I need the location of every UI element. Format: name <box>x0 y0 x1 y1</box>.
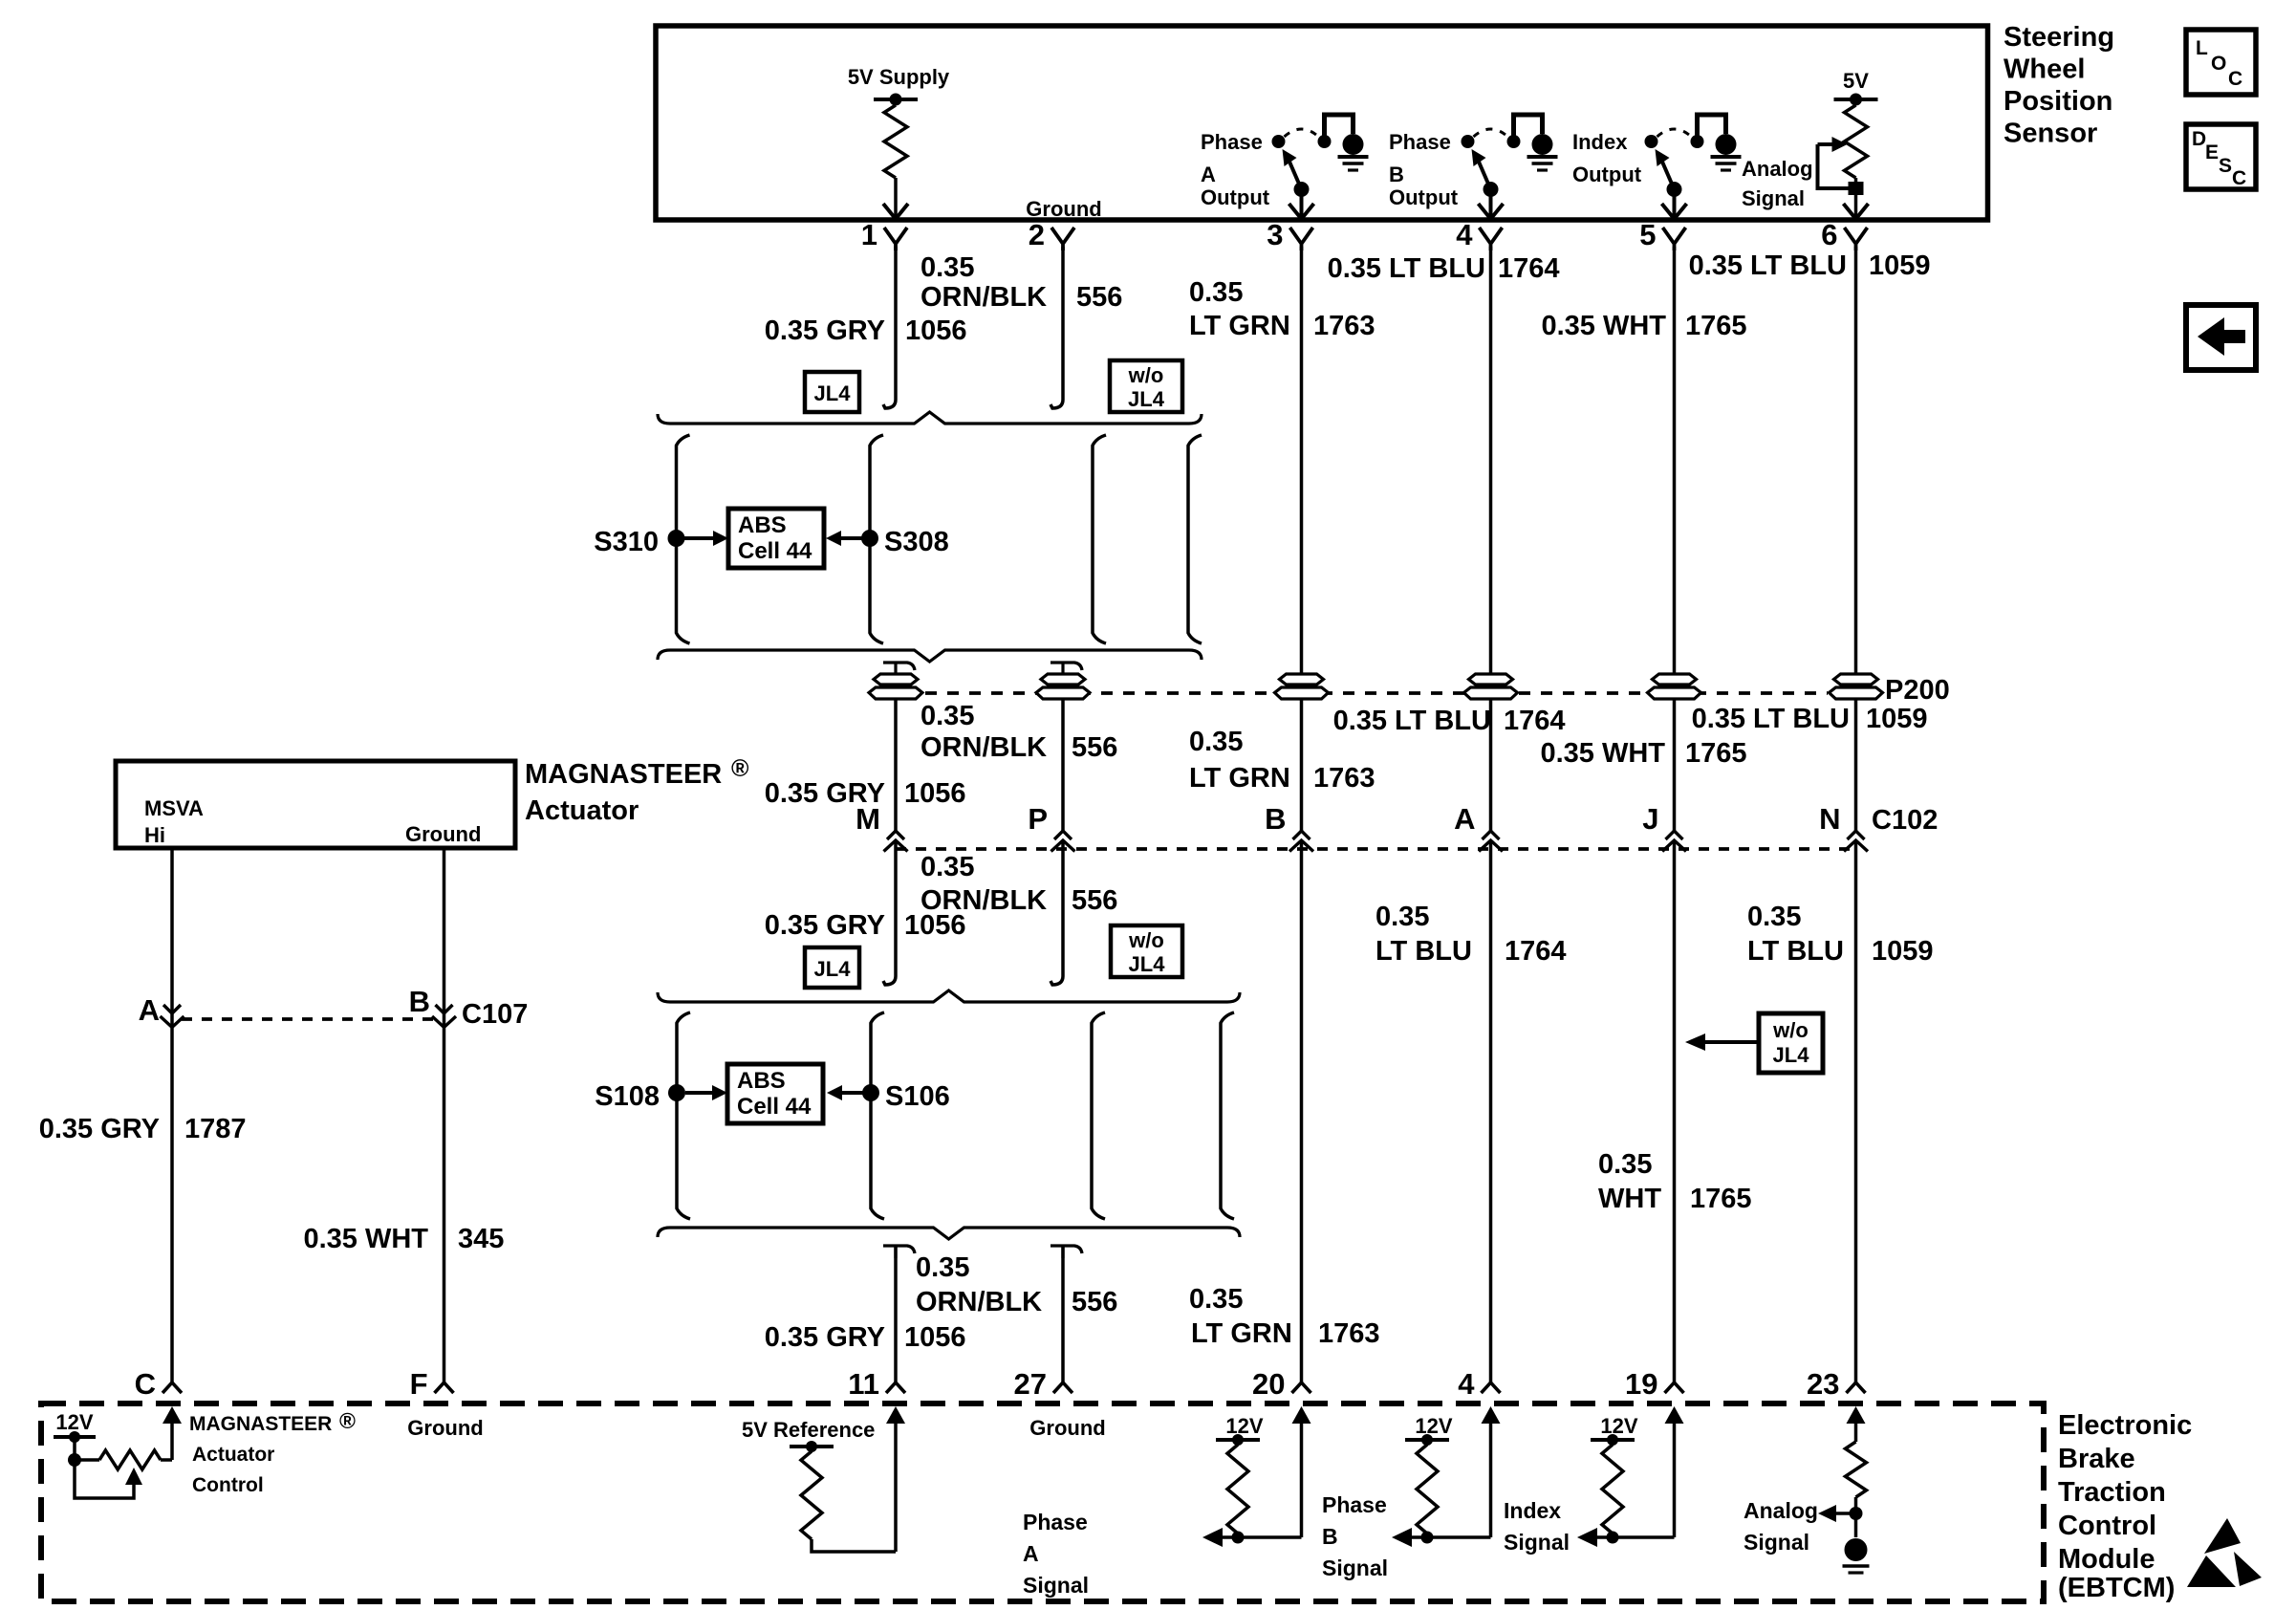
wire 345 WHT from MSVA Ground to EBTCM pin F <box>443 850 446 1382</box>
resistor: 5V supply <box>894 99 898 105</box>
svg-text:Wheel: Wheel <box>2004 54 2085 85</box>
svg-text:Brake: Brake <box>2058 1444 2135 1474</box>
harness wire <box>1092 1012 1105 1219</box>
wire with arrow to pin 1 <box>894 178 898 218</box>
output wire with arrow <box>1489 189 1493 218</box>
svg-text:3: 3 <box>1267 218 1283 251</box>
svg-text:1765: 1765 <box>1685 738 1747 769</box>
svg-text:A: A <box>139 993 160 1027</box>
wire 1764 LT BLU to EBTCM pin 4 <box>1489 840 1493 1382</box>
connector C102 terminal B <box>1293 831 1310 839</box>
svg-text:LT GRN: LT GRN <box>1191 1318 1292 1349</box>
svg-text:1765: 1765 <box>1690 1184 1752 1214</box>
svg-text:MSVA: MSVA <box>144 796 204 820</box>
svg-text:23: 23 <box>1807 1367 1839 1401</box>
svg-text:0.35 LT BLU: 0.35 LT BLU <box>1689 250 1847 281</box>
wire 556 ORN/BLK to EBTCM pin 27 <box>1061 1246 1065 1382</box>
harness wire (S106) <box>871 1012 884 1219</box>
5V supply node <box>1834 98 1878 101</box>
svg-text:E: E <box>2205 141 2219 163</box>
potentiometer resistor: Analog Signal <box>1854 99 1858 105</box>
svg-text:Cell 44: Cell 44 <box>738 538 812 564</box>
splice S108 <box>668 1084 685 1101</box>
svg-text:0.35 GRY: 0.35 GRY <box>765 315 885 346</box>
svg-text:1763: 1763 <box>1318 1318 1380 1349</box>
svg-text:JL4: JL4 <box>1773 1043 1810 1067</box>
signal wire with arrow <box>1592 1535 1675 1539</box>
connector C102 terminal M <box>887 831 904 839</box>
svg-text:Output: Output <box>1389 185 1459 209</box>
svg-text:Analog: Analog <box>1742 157 1813 181</box>
output wire with arrow <box>1673 189 1677 218</box>
svg-text:0.35: 0.35 <box>1189 277 1243 308</box>
svg-text:Cell 44: Cell 44 <box>737 1094 812 1120</box>
svg-text:20: 20 <box>1252 1367 1285 1401</box>
svg-text:1764: 1764 <box>1504 706 1566 736</box>
connector C107 dashed line <box>182 1017 435 1021</box>
svg-text:®: ® <box>339 1408 356 1433</box>
svg-text:0.35: 0.35 <box>1598 1149 1652 1180</box>
signal wire with arrow <box>1831 1512 1856 1515</box>
potentiometer wiper arrow <box>75 1460 134 1498</box>
wire 1787 GRY from MSVA Hi to EBTCM pin C <box>170 850 174 1382</box>
svg-text:0.35: 0.35 <box>916 1252 969 1283</box>
svg-text:Module: Module <box>2058 1544 2155 1575</box>
splice S106 <box>862 1084 879 1101</box>
svg-text:C: C <box>135 1367 156 1401</box>
svg-text:S: S <box>2219 155 2232 177</box>
svg-text:J: J <box>1642 802 1658 836</box>
connector C102 terminal A <box>1483 831 1500 839</box>
splice block ABS Cell 44 <box>727 1064 823 1123</box>
wire 1764 LT BLU from pin 4 <box>1489 247 1493 831</box>
svg-text:1056: 1056 <box>904 778 966 809</box>
junction <box>73 1437 76 1460</box>
wire <box>812 1539 896 1552</box>
svg-text:Output: Output <box>1572 163 1642 186</box>
resistor: Analog Signal load <box>1846 1442 1867 1497</box>
svg-text:12V: 12V <box>55 1410 93 1434</box>
svg-text:P: P <box>1028 802 1048 836</box>
svg-text:12V: 12V <box>1225 1414 1263 1438</box>
option box w/o JL4 with arrow to WHT wire <box>1759 1013 1823 1073</box>
svg-text:2: 2 <box>1029 218 1045 251</box>
harness wire <box>1221 1012 1234 1219</box>
svg-text:WHT: WHT <box>1598 1184 1661 1214</box>
connector P200 dashed line <box>925 691 1828 695</box>
back arrow box <box>2186 305 2256 370</box>
svg-text:4: 4 <box>1456 218 1473 251</box>
junction <box>1421 1532 1434 1544</box>
svg-text:Control: Control <box>192 1474 264 1496</box>
connector C102 dashed line <box>896 847 1856 851</box>
svg-text:L: L <box>2196 37 2208 59</box>
switch contact node <box>1645 135 1658 148</box>
svg-text:0.35: 0.35 <box>921 852 974 882</box>
wire 1056 GRY <box>894 699 898 831</box>
junction <box>1607 1532 1619 1544</box>
harness brace top (section 1) <box>658 412 1202 424</box>
svg-text:1059: 1059 <box>1869 250 1931 281</box>
svg-text:0.35: 0.35 <box>1747 902 1801 932</box>
arrow into pin 11 <box>886 1406 905 1424</box>
connector P200 terminal (wire A) <box>1464 674 1518 699</box>
svg-text:1: 1 <box>861 218 877 251</box>
DESC box <box>2186 124 2256 189</box>
component box MAGNASTEER Actuator (MSVA) <box>116 761 515 848</box>
svg-text:0.35: 0.35 <box>921 701 974 731</box>
ground <box>1532 134 1553 155</box>
wire 1763 LT GRN to EBTCM pin 20 <box>1300 840 1304 1382</box>
svg-text:1764: 1764 <box>1498 253 1560 284</box>
svg-text:N: N <box>1819 802 1840 836</box>
svg-text:A: A <box>1454 802 1475 836</box>
wire to ground <box>1514 115 1543 140</box>
arrow into pin C <box>162 1406 182 1424</box>
option box w/o JL4 <box>1111 925 1182 977</box>
wire 1059 LT BLU from pin 6 <box>1854 247 1858 831</box>
svg-text:Sensor: Sensor <box>2004 119 2097 149</box>
svg-text:ORN/BLK: ORN/BLK <box>921 282 1047 313</box>
svg-text:27: 27 <box>1014 1367 1047 1401</box>
svg-text:Signal: Signal <box>1023 1573 1089 1598</box>
connector C102 terminal J <box>1666 831 1683 839</box>
svg-text:ABS: ABS <box>737 1068 786 1094</box>
switch contact to ground <box>1691 135 1704 148</box>
switch arm <box>1662 161 1675 189</box>
svg-text:MAGNASTEER: MAGNASTEER <box>525 759 722 790</box>
svg-text:1056: 1056 <box>905 315 967 346</box>
LOC box <box>2186 30 2256 95</box>
svg-text:0.35 LT BLU: 0.35 LT BLU <box>1692 704 1850 734</box>
svg-text:Signal: Signal <box>1742 186 1805 210</box>
harness wire <box>1188 435 1202 643</box>
svg-text:JL4: JL4 <box>1128 387 1165 411</box>
svg-text:1056: 1056 <box>904 910 966 941</box>
harness brace bottom (section 2) <box>658 1228 1240 1239</box>
resistor (pull-up) <box>1611 1440 1614 1445</box>
wire 1059 LT BLU to EBTCM pin 23 <box>1854 840 1858 1382</box>
svg-text:1056: 1056 <box>904 1322 966 1353</box>
svg-text:1763: 1763 <box>1313 311 1375 341</box>
svg-text:Phase: Phase <box>1023 1510 1088 1534</box>
svg-text:w/o: w/o <box>1772 1018 1809 1042</box>
arrow into pin 23 <box>1847 1406 1866 1424</box>
svg-text:®: ® <box>731 755 749 782</box>
wire stub 1056 GRY <box>883 1246 915 1258</box>
svg-text:O: O <box>2211 53 2226 75</box>
signal wire with arrow <box>1407 1535 1491 1539</box>
connector P200 terminal (wire N) <box>1830 674 1883 699</box>
splice S308 <box>861 530 878 547</box>
svg-text:M: M <box>856 802 880 836</box>
wire 556 ORN/BLK <box>1061 699 1065 831</box>
svg-text:LT GRN: LT GRN <box>1189 311 1290 341</box>
resistor: Index Signal pull-up (12V) <box>1665 1406 1684 1424</box>
svg-text:0.35: 0.35 <box>1189 727 1243 757</box>
wire 1056 GRY to EBTCM pin 11 <box>894 1246 898 1382</box>
resistor: 5V Reference <box>810 1447 813 1451</box>
svg-text:S108: S108 <box>595 1081 660 1112</box>
svg-text:P200: P200 <box>1885 675 1950 706</box>
option box JL4 <box>805 372 859 412</box>
wire 1056 GRY from pin 1 <box>883 247 896 408</box>
svg-text:Signal: Signal <box>1504 1530 1570 1555</box>
svg-text:556: 556 <box>1072 1287 1117 1317</box>
connector C107 terminal B <box>436 1005 453 1013</box>
svg-text:Signal: Signal <box>1744 1530 1809 1555</box>
svg-text:MAGNASTEER: MAGNASTEER <box>189 1413 332 1435</box>
svg-text:ORN/BLK: ORN/BLK <box>921 732 1047 763</box>
ground symbol <box>1854 1513 1858 1537</box>
svg-text:LT GRN: LT GRN <box>1189 763 1290 794</box>
svg-text:5V Reference: 5V Reference <box>742 1418 875 1442</box>
signal wire with arrow <box>1218 1535 1302 1539</box>
svg-text:345: 345 <box>458 1224 504 1254</box>
svg-text:5: 5 <box>1639 218 1656 251</box>
connector P200 terminal (wire B) <box>1275 674 1329 699</box>
svg-text:5V: 5V <box>1843 69 1869 93</box>
svg-text:12V: 12V <box>1415 1414 1452 1438</box>
svg-text:1765: 1765 <box>1685 311 1747 341</box>
wire to ground <box>1698 115 1726 140</box>
svg-text:C: C <box>2232 167 2246 189</box>
svg-text:5V Supply: 5V Supply <box>848 65 950 89</box>
svg-text:556: 556 <box>1072 885 1117 916</box>
svg-text:0.35 WHT: 0.35 WHT <box>303 1224 428 1254</box>
wire 556 ORN/BLK from pin 2 <box>1051 247 1063 408</box>
svg-text:Steering: Steering <box>2004 22 2114 53</box>
svg-text:w/o: w/o <box>1128 363 1164 387</box>
svg-text:Control: Control <box>2058 1511 2156 1541</box>
svg-text:0.35 WHT: 0.35 WHT <box>1540 738 1665 769</box>
harness wire (S310) <box>677 435 690 643</box>
svg-text:Actuator: Actuator <box>525 795 639 826</box>
wire with arrow to pin 6 <box>1854 178 1858 218</box>
junction <box>1850 1507 1863 1520</box>
svg-text:0.35: 0.35 <box>1375 902 1429 932</box>
switch travel arc (dashed) <box>1474 129 1508 137</box>
potentiometer resistor <box>75 1458 99 1462</box>
harness brace bottom (section 1) <box>658 650 1202 662</box>
svg-text:Ground: Ground <box>1029 1416 1105 1440</box>
svg-text:1763: 1763 <box>1313 763 1375 794</box>
svg-text:0.35 GRY: 0.35 GRY <box>39 1114 160 1144</box>
switch contact to ground <box>1507 135 1521 148</box>
svg-text:w/o: w/o <box>1128 928 1164 952</box>
svg-text:S310: S310 <box>594 527 659 557</box>
wire stub to P200 (GRY) <box>883 663 915 675</box>
svg-text:Ground: Ground <box>405 822 481 846</box>
svg-text:0.35: 0.35 <box>921 252 974 283</box>
wire 556 ORN/BLK to harness <box>1051 840 1063 985</box>
svg-text:Hi: Hi <box>144 823 165 847</box>
svg-text:S106: S106 <box>885 1081 950 1112</box>
output wire with arrow <box>1300 189 1304 218</box>
svg-text:1059: 1059 <box>1872 936 1934 967</box>
svg-text:Traction: Traction <box>2058 1477 2166 1508</box>
svg-text:11: 11 <box>848 1367 879 1401</box>
svg-text:C102: C102 <box>1872 805 1938 836</box>
splice S310 <box>668 530 685 547</box>
wire stub to P200 (ORN/BLK) <box>1051 663 1082 675</box>
svg-text:ORN/BLK: ORN/BLK <box>916 1287 1042 1317</box>
svg-text:4: 4 <box>1458 1367 1475 1401</box>
svg-text:Actuator: Actuator <box>192 1444 274 1466</box>
connector P200 terminal (wire J) <box>1648 674 1701 699</box>
harness wire (S308) <box>870 435 883 643</box>
svg-text:1787: 1787 <box>184 1114 247 1144</box>
svg-text:0.35 LT BLU: 0.35 LT BLU <box>1328 253 1485 284</box>
svg-text:B: B <box>1322 1524 1338 1549</box>
svg-text:Analog: Analog <box>1744 1498 1818 1523</box>
5V reference supply node <box>790 1445 834 1448</box>
wire to ground <box>1325 115 1354 140</box>
svg-text:D: D <box>2192 128 2206 150</box>
svg-text:A: A <box>1201 163 1216 186</box>
svg-text:Index: Index <box>1572 130 1628 154</box>
switch travel arc (dashed) <box>1657 129 1692 137</box>
svg-text:Output: Output <box>1201 185 1270 209</box>
resistor (pull-up) <box>1425 1440 1429 1445</box>
resistor: Phase A Signal pull-up (12V) <box>1292 1406 1311 1424</box>
svg-text:B: B <box>1265 802 1286 836</box>
wire 1056 GRY to harness <box>883 840 896 985</box>
switch travel arc (dashed) <box>1285 129 1319 137</box>
option box w/o JL4 <box>1110 360 1182 412</box>
svg-text:Phase: Phase <box>1201 130 1263 154</box>
svg-text:0.35 LT BLU: 0.35 LT BLU <box>1333 706 1491 736</box>
harness wire <box>1093 435 1106 643</box>
svg-text:0.35 GRY: 0.35 GRY <box>765 910 885 941</box>
option box JL4 <box>805 947 859 988</box>
svg-text:556: 556 <box>1072 732 1117 763</box>
svg-text:LT BLU: LT BLU <box>1375 936 1472 967</box>
5V supply node <box>874 98 918 101</box>
wire 1763 LT GRN from pin 3 <box>1300 247 1304 831</box>
ground <box>1343 134 1364 155</box>
wire 1765 WHT to EBTCM pin 19 <box>1673 840 1677 1382</box>
svg-text:JL4: JL4 <box>814 381 852 405</box>
connector C102 terminal P <box>1054 831 1072 839</box>
switch arm <box>1479 161 1491 189</box>
svg-text:0.35 GRY: 0.35 GRY <box>765 1322 885 1353</box>
ESD sensitive device symbol <box>2204 1518 2241 1554</box>
harness brace top (section 2) <box>658 990 1240 1002</box>
harness wire (S108) <box>677 1012 690 1219</box>
connector P200 terminal (wire M) <box>869 674 922 699</box>
svg-text:B: B <box>409 985 430 1018</box>
svg-text:Phase: Phase <box>1322 1492 1387 1517</box>
svg-text:ABS: ABS <box>738 512 787 538</box>
svg-text:S308: S308 <box>884 527 949 557</box>
connector C107 terminal A <box>163 1005 181 1013</box>
connector C102 terminal N <box>1848 831 1865 839</box>
svg-text:Electronic: Electronic <box>2058 1410 2192 1441</box>
wire stub 556 ORN/BLK <box>1051 1246 1082 1258</box>
switch contact node <box>1272 135 1286 148</box>
svg-text:1764: 1764 <box>1505 936 1567 967</box>
resistor (pull-up) <box>1236 1440 1240 1445</box>
svg-text:LT BLU: LT BLU <box>1747 936 1844 967</box>
svg-text:0.35: 0.35 <box>1189 1284 1243 1315</box>
svg-text:C: C <box>2228 68 2242 90</box>
junction <box>1232 1532 1245 1544</box>
switch contact to ground <box>1318 135 1332 148</box>
svg-text:JL4: JL4 <box>1129 952 1166 976</box>
svg-text:6: 6 <box>1821 218 1837 251</box>
switch contact node <box>1462 135 1475 148</box>
svg-text:19: 19 <box>1625 1367 1657 1401</box>
potentiometer wiper arrow <box>1818 144 1851 188</box>
module box EBTCM (dashed) <box>41 1403 2044 1601</box>
svg-text:556: 556 <box>1076 282 1122 313</box>
svg-text:A: A <box>1023 1541 1039 1566</box>
wire 1765 WHT from pin 5 <box>1673 247 1677 831</box>
wiper junction <box>1849 182 1864 195</box>
svg-text:Ground: Ground <box>407 1416 483 1440</box>
switch arm <box>1289 161 1302 189</box>
svg-text:C107: C107 <box>462 999 528 1030</box>
svg-text:Signal: Signal <box>1322 1556 1388 1580</box>
connector P200 terminal (wire P) <box>1036 674 1090 699</box>
ground <box>1716 134 1737 155</box>
svg-text:Position: Position <box>2004 86 2112 117</box>
12V supply node <box>54 1435 96 1439</box>
svg-text:1059: 1059 <box>1866 704 1928 734</box>
svg-text:B: B <box>1389 163 1404 186</box>
svg-text:Index: Index <box>1504 1498 1561 1523</box>
sensor box: Steering Wheel Position Sensor <box>656 26 1988 220</box>
svg-text:F: F <box>410 1367 428 1401</box>
svg-text:(EBTCM): (EBTCM) <box>2058 1573 2175 1603</box>
svg-text:JL4: JL4 <box>814 957 852 981</box>
svg-text:Phase: Phase <box>1389 130 1451 154</box>
svg-text:12V: 12V <box>1600 1414 1637 1438</box>
resistor: Phase B Signal pull-up (12V) <box>1482 1406 1501 1424</box>
svg-text:0.35 WHT: 0.35 WHT <box>1541 311 1666 341</box>
splice block ABS Cell 44 <box>728 509 824 568</box>
